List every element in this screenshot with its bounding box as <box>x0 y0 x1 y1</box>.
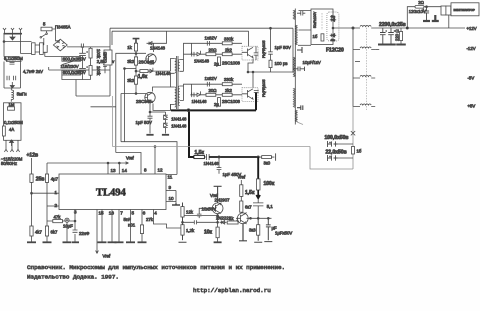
svg-text:1б: 1б <box>313 34 318 39</box>
connector bar <box>4 33 23 35</box>
svg-text:100к: 100к <box>264 181 275 187</box>
rectifier output wire <box>333 27 353 29</box>
snubber bottom wire <box>270 68 272 72</box>
T2 primary winding (left sawtooth) <box>293 10 295 108</box>
timing resistor 27k <box>140 225 143 234</box>
svg-text:13: 13 <box>111 168 117 173</box>
svg-text:0,1x250М: 0,1x250М <box>4 120 23 125</box>
fan box <box>451 3 479 16</box>
svg-text:2µ: 2µ <box>214 62 219 67</box>
svg-text:8: 8 <box>144 168 147 173</box>
svg-text:22,0х50в: 22,0х50в <box>326 150 347 156</box>
svg-text:F12C20: F12C20 <box>326 48 344 54</box>
node dot snubber <box>270 27 272 29</box>
transistor Q4 2N2222 <box>236 213 248 224</box>
svg-text:П3465А: П3465А <box>55 24 71 29</box>
Q2 emitter column <box>149 103 151 134</box>
svg-text:4µ7: 4µ7 <box>51 177 59 182</box>
svg-text:115/230V: 115/230V <box>61 64 79 69</box>
thick drive common wire <box>171 109 256 111</box>
transistor Q1 2SC945 <box>146 54 156 64</box>
svg-text:22нФ: 22нФ <box>79 231 90 236</box>
lower cross cap <box>183 220 218 224</box>
electrolytic column <box>82 47 84 80</box>
hang cap 1µF 450V <box>217 157 222 174</box>
svg-text:100k: 100k <box>96 49 101 59</box>
fan resistor 2Ω <box>415 6 424 9</box>
svg-text:1N4148: 1N4148 <box>192 99 208 104</box>
svg-text:49в: 49в <box>331 15 336 19</box>
svg-text:10: 10 <box>169 196 175 201</box>
bridge rectifier VD1 <box>53 39 67 51</box>
resistor 3k3 lower <box>134 76 137 84</box>
bleed resistor wires <box>400 28 402 45</box>
resistor 1Ω <box>321 34 324 41</box>
fb cap right <box>264 218 272 241</box>
hang cap node dot <box>218 156 220 158</box>
svg-text:1x62V: 1x62V <box>205 35 217 40</box>
emitter cap plates <box>148 116 153 118</box>
resistor 10к <box>216 227 219 238</box>
boxed label C 600,0x350V lower <box>62 70 86 75</box>
voltage selector switch <box>62 61 73 64</box>
sense resistor <box>352 147 355 155</box>
cross wire <box>125 68 137 70</box>
resistor 1k horizontal <box>227 221 238 224</box>
svg-text:-5V: -5V <box>468 76 475 81</box>
X-cap on plus <box>81 44 83 48</box>
fuse F1 <box>41 27 52 31</box>
svg-text:9: 9 <box>169 185 172 190</box>
transistor Q3 2N2907 <box>211 203 224 214</box>
resistor 3к0 <box>262 156 272 159</box>
lower mid line <box>191 94 243 96</box>
down arrow <box>10 82 14 88</box>
connector drop wire <box>448 15 450 28</box>
svg-text:1µFх50V: 1µFх50V <box>275 231 292 236</box>
pin 5 wire <box>130 210 132 243</box>
output node dot <box>352 27 354 29</box>
up arrow symbol <box>10 140 14 146</box>
svg-text:1б: 1б <box>357 149 362 154</box>
svg-text:100k: 100k <box>96 66 101 76</box>
svg-text:1N4148: 1N4148 <box>171 117 187 122</box>
pin 11 wire <box>121 142 177 175</box>
ground G7 <box>115 241 124 243</box>
pin 7 wire <box>118 210 120 243</box>
lower cap left <box>192 93 194 98</box>
secondary rect stub -5V <box>297 44 299 46</box>
upper cap left <box>192 52 194 57</box>
svg-text:1,5к: 1,5к <box>245 190 255 196</box>
-12V rail stub <box>375 49 379 51</box>
svg-text:Vref: Vref <box>210 193 219 198</box>
lower top line <box>192 83 243 85</box>
svg-text:http://spblan.narod.ru: http://spblan.narod.ru <box>193 287 271 294</box>
wire to diode column <box>150 111 166 113</box>
Vref chain wire <box>240 180 242 213</box>
bleeder resistor R1 100k <box>89 48 92 58</box>
node dots q3 <box>217 215 219 217</box>
thick fb drop <box>257 157 259 179</box>
47k feedback resistor <box>53 220 63 223</box>
Q1 collector diode 1N4148 <box>147 42 154 52</box>
lower resistor 6к7 <box>45 226 48 236</box>
svg-text:ВЕНТИЛЯТОР: ВЕНТИЛЯТОР <box>454 8 475 12</box>
pin 3 series cap 22nF <box>73 230 78 232</box>
lower resistor 330k <box>222 83 232 86</box>
pin 12 stub <box>154 147 156 175</box>
doubler rail upper <box>45 52 62 56</box>
svg-text:27k: 27k <box>146 217 154 222</box>
svg-text:100 рв: 100 рв <box>275 61 289 66</box>
diode 1N4148 mid <box>148 68 154 73</box>
output common vertical <box>352 28 354 107</box>
+5V choke winding <box>353 104 375 107</box>
lower 2µ2 cap vertical <box>218 98 221 107</box>
node corner dot <box>257 156 259 158</box>
wire 1k to q4 base <box>237 220 239 223</box>
fan connector pair <box>441 6 446 15</box>
upper 2µ2 cap vertical <box>218 57 221 66</box>
pin 16 wire <box>111 210 113 243</box>
connector X1 pins <box>3 28 22 33</box>
svg-text:Vref: Vref <box>126 156 135 161</box>
svg-text:+12в: +12в <box>27 153 39 159</box>
Vref arrow end of rail <box>126 162 129 164</box>
secondary rect stub -12V <box>355 61 360 63</box>
svg-text:-12V: -12V <box>467 46 476 51</box>
node dot rail/pin14 <box>118 162 120 164</box>
svg-text:+5V: +5V <box>468 104 476 109</box>
node dot cap <box>426 6 428 8</box>
E1 ground <box>378 44 388 46</box>
pin 8 stub <box>116 153 141 175</box>
Q2 collector wire <box>153 87 171 92</box>
svg-text:6: 6 <box>143 211 146 216</box>
svg-text:1µF 50V: 1µF 50V <box>275 45 291 50</box>
diode D lower <box>330 34 336 38</box>
lower resistor 20Ω <box>206 93 216 96</box>
resistor 4µ7 upper <box>45 174 48 182</box>
svg-text:10µF: 10µF <box>63 224 73 229</box>
svg-text:1,5к: 1,5к <box>195 150 205 156</box>
ground G5 <box>98 241 107 243</box>
thin emitter link <box>153 104 171 111</box>
svg-text:3к0: 3к0 <box>264 161 271 166</box>
node dot pin12 tap <box>154 146 156 148</box>
wire divider to q3 base <box>183 208 218 215</box>
svg-text:4k7: 4k7 <box>35 230 43 235</box>
upper cap 1x62V <box>207 41 209 46</box>
resistor 1k <box>134 43 137 51</box>
T2 top tap cap <box>297 11 305 16</box>
10µF cap plus symbol <box>65 218 69 222</box>
T2 secondary winding (right sawtooth) <box>295 25 297 122</box>
E2 ground <box>386 44 396 46</box>
svg-text:49в: 49в <box>331 38 336 42</box>
wire bridge plus <box>67 46 110 48</box>
chassis ground arrow <box>10 35 15 41</box>
upper emitter cap <box>254 47 259 61</box>
T1 left taps <box>171 59 175 111</box>
Vref T-bar above Q3 <box>214 186 222 203</box>
svg-text:330k: 330k <box>224 77 234 82</box>
T2 core line <box>294 9 296 125</box>
node dot pin1 <box>31 192 33 194</box>
long gray sense wire <box>113 96 311 147</box>
wire switch to bridge <box>52 29 60 41</box>
resistor 25в (R dropper) <box>30 174 33 182</box>
svg-text:10µF/1кV: 10µF/1кV <box>303 60 321 65</box>
T1 right taps <box>180 60 184 101</box>
svg-text:220 Ω: 220 Ω <box>395 29 400 41</box>
driver transformer T1 core <box>176 56 178 109</box>
svg-text:12: 12 <box>158 168 164 173</box>
lower network frame wires <box>184 84 192 101</box>
svg-text:330k: 330k <box>224 36 234 41</box>
svg-text:1µF 50V: 1µF 50V <box>136 120 152 125</box>
diode fb <box>220 221 227 225</box>
svg-text:11: 11 <box>168 175 173 180</box>
+12V choke winding <box>353 25 371 28</box>
snubber box right of T2 <box>299 11 312 31</box>
svg-text:1,2k: 1,2k <box>186 228 195 233</box>
upper top line <box>192 42 243 44</box>
svg-text:1,6к: 1,6к <box>138 74 148 80</box>
svg-text:1N4148: 1N4148 <box>194 58 210 63</box>
electrolytic cap E2 <box>388 28 395 44</box>
resistor 3k3 fb <box>257 225 260 236</box>
aux label box <box>103 50 113 65</box>
junction cross on +5V <box>351 128 355 135</box>
svg-text:б2МВ: б2МВ <box>103 52 108 63</box>
thick feedback drop <box>188 110 190 157</box>
primary top rail A <box>110 27 293 29</box>
node dot <box>135 53 137 55</box>
lower resistor 4к7 <box>30 226 33 236</box>
bleeder resistor R2 100k <box>89 66 92 76</box>
electrolytic cap E1 <box>380 28 387 44</box>
node dot fan <box>406 27 408 29</box>
ground G3 <box>63 241 72 243</box>
resistor 1M <box>8 107 15 110</box>
svg-text:Справочник. Микросхемы для имп: Справочник. Микросхемы для импульсных ис… <box>27 264 285 271</box>
aux box 2 outline <box>4 103 22 141</box>
svg-text:20Ω: 20Ω <box>209 88 218 93</box>
ground under pins 9-10 <box>172 204 180 206</box>
node dot pin3 <box>74 220 76 222</box>
primary return wire <box>91 106 116 108</box>
svg-text:10х50V: 10х50V <box>202 207 217 212</box>
svg-text:5nF: 5nF <box>124 217 132 222</box>
resistor 100к <box>256 179 260 190</box>
upper network frame wires <box>184 43 192 71</box>
svg-text:2SC945: 2SC945 <box>139 60 155 65</box>
fan branch riser <box>407 7 415 28</box>
svg-text:2SC1008: 2SC1008 <box>222 60 241 65</box>
bottom pins <box>4 140 19 152</box>
svg-text:50/60Hz: 50/60Hz <box>1 161 17 166</box>
diode column ground <box>162 134 169 136</box>
pin 2 wire <box>47 205 59 207</box>
T2 center tap bar <box>297 47 302 53</box>
svg-text:7: 7 <box>120 211 123 216</box>
right vertical from rail <box>109 28 111 96</box>
ground top of drive stage <box>133 39 140 44</box>
boxed label C 600,0x350V upper <box>62 56 86 61</box>
svg-text:1x62V: 1x62V <box>205 76 217 81</box>
svg-text:Издательство Додэка. 1997.: Издательство Додэка. 1997. <box>27 274 119 281</box>
ground G9 <box>138 241 147 243</box>
wire L-path to +5V sense <box>310 107 353 170</box>
node dots <box>250 217 252 219</box>
+12в wire <box>31 158 33 243</box>
T2 bottom tail <box>297 122 303 125</box>
svg-text:2SC1008: 2SC1008 <box>222 99 241 104</box>
bleed resistor 220 <box>400 32 403 41</box>
svg-text:Ph(PR)1005: Ph(PR)1005 <box>262 79 266 97</box>
svg-text:4А: 4А <box>9 127 14 132</box>
svg-text:0,1x250М: 0,1x250М <box>4 56 23 61</box>
svg-text:2µ: 2µ <box>214 102 219 107</box>
supply rail to pin12 area <box>47 162 129 164</box>
-12V choke winding <box>353 47 375 50</box>
gray cap dashed <box>321 13 323 30</box>
side resistor <box>3 126 6 136</box>
svg-text:1N4148: 1N4148 <box>150 46 166 51</box>
block frame <box>311 9 333 45</box>
svg-text:15: 15 <box>99 211 105 216</box>
wire mid to transformer <box>136 70 171 72</box>
svg-text:5,1: 5,1 <box>267 204 274 209</box>
T1 right winding <box>178 60 179 106</box>
cap 5,1 <box>253 200 263 218</box>
svg-text:+12V: +12V <box>467 26 477 31</box>
primary loop right <box>248 28 293 87</box>
node dots q2 base <box>135 93 137 95</box>
10к ground <box>214 241 222 243</box>
node blob <box>187 109 190 112</box>
fan top wire <box>424 6 441 8</box>
wire to Q1 base <box>116 51 147 76</box>
upper diode 1N4148 <box>197 51 200 56</box>
pin 10 wire <box>166 191 176 204</box>
svg-text:2Ω: 2Ω <box>418 0 424 5</box>
op-amp U1 TL494 body <box>59 174 166 210</box>
upper resistor 2k2 <box>222 53 232 56</box>
upper resistor 20Ω <box>206 53 216 56</box>
feedback wire pin3 <box>47 221 75 243</box>
cap 600u lower plates <box>79 66 88 70</box>
Q4 emitter ground <box>239 224 247 241</box>
resistor 1,5к <box>194 155 205 158</box>
Q4 collector node wire <box>246 212 271 218</box>
svg-text:2: 2 <box>55 203 58 208</box>
caps right wires <box>338 144 354 158</box>
1,6к resistor <box>140 70 148 73</box>
rectifier F12C20 dotted box <box>327 12 339 41</box>
Y-cap symbol <box>103 57 107 74</box>
lower switch transistor VT4 <box>242 88 258 102</box>
pin 14 stub <box>118 163 120 174</box>
svg-text:6k7: 6k7 <box>51 230 59 235</box>
node dot <box>3 41 5 43</box>
cap 22,0x50в symbol <box>328 155 338 161</box>
pin 3 wire <box>74 210 76 243</box>
svg-text:4,7нФ 2кV: 4,7нФ 2кV <box>23 69 43 74</box>
svg-text:16: 16 <box>109 211 115 216</box>
divider wires <box>179 203 187 243</box>
svg-text:1N4148: 1N4148 <box>204 161 220 166</box>
pin 1 wire <box>32 192 60 194</box>
svg-text:2k2: 2k2 <box>225 48 233 53</box>
diode Da <box>163 115 167 119</box>
svg-text:47k: 47k <box>54 214 62 219</box>
divider resistor 1.2k <box>181 225 184 235</box>
ground G1 <box>27 241 36 243</box>
bleed ground <box>396 44 406 46</box>
svg-text:1М: 1М <box>9 102 15 107</box>
rail corner to resistor column <box>46 163 48 243</box>
upper mid line <box>191 53 243 55</box>
lower cap 1x62V <box>207 82 209 87</box>
lower resistor 2k2 <box>222 93 232 96</box>
upper resistor 330k <box>222 42 232 45</box>
node dot mid <box>135 70 137 72</box>
upper collector wire <box>248 31 253 72</box>
svg-text:25в: 25в <box>36 177 45 183</box>
-5V choke winding <box>353 75 375 78</box>
resistor 1,5к vertical <box>240 185 243 197</box>
resistor 3k3 upper <box>134 57 137 65</box>
svg-text:14: 14 <box>122 168 128 173</box>
transistor Q2 2SC945 <box>145 92 155 102</box>
cap 100,0x50в symbol <box>328 141 338 147</box>
twin caps <box>7 76 16 81</box>
svg-text:TL494: TL494 <box>96 188 127 199</box>
svg-text:6к7: 6к7 <box>245 205 252 210</box>
pin 13 stub <box>107 163 109 174</box>
choke core dashed <box>366 25 368 110</box>
ground G4 <box>72 241 79 243</box>
resistor 6к7 <box>240 201 243 212</box>
svg-text:50нFх100V: 50нFх100V <box>313 11 317 28</box>
svg-text:20Ω: 20Ω <box>209 48 218 53</box>
emitter node dot <box>149 111 151 113</box>
svg-text:Vref: Vref <box>103 254 112 259</box>
ground G2 <box>43 241 52 243</box>
cap 10x50V <box>197 212 202 219</box>
svg-text:5: 5 <box>132 211 135 216</box>
right branch wire <box>298 44 311 46</box>
diode Db <box>163 123 167 127</box>
upper switch transistor VT3 <box>242 46 258 60</box>
thick emitter drop <box>255 93 257 111</box>
svg-text:Ph(PR)4005: Ph(PR)4005 <box>262 40 266 58</box>
T2 lower tap cap <box>297 105 303 110</box>
cap horizontal <box>294 67 305 72</box>
fb wire to node <box>209 156 258 158</box>
ground G6 <box>108 241 117 243</box>
svg-text:12k: 12k <box>186 210 194 215</box>
wire choke to fuse <box>43 45 47 52</box>
divider resistor 12k <box>181 207 184 217</box>
common-mode choke L1 <box>32 43 44 55</box>
svg-text:3k3: 3k3 <box>127 59 135 64</box>
T1 left winding <box>175 59 176 108</box>
svg-text:1N4148: 1N4148 <box>171 124 187 129</box>
